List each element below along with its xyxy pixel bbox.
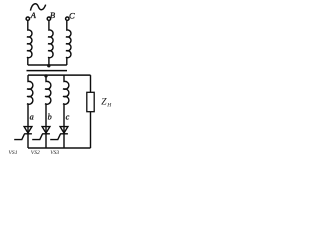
svg-text:B: B [50, 10, 56, 20]
svg-text:a: a [30, 113, 34, 122]
svg-text:C: C [69, 10, 75, 20]
svg-text:A: A [30, 10, 37, 20]
svg-text:VS1: VS1 [9, 150, 18, 156]
svg-text:b: b [48, 113, 52, 122]
svg-text:VS2: VS2 [31, 150, 40, 156]
svg-text:VS3: VS3 [50, 150, 59, 156]
svg-text:c: c [66, 113, 70, 122]
